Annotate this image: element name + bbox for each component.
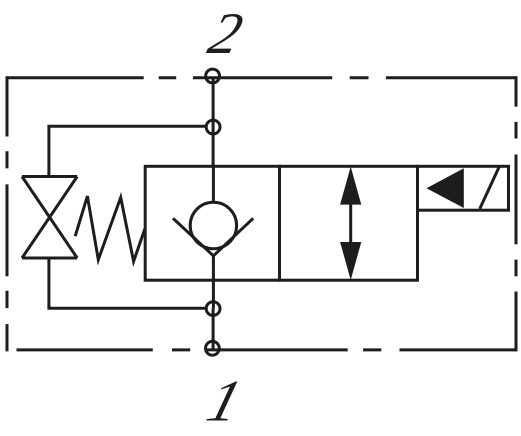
port label 2 xyxy=(202,0,249,66)
solenoid winding triangle xyxy=(427,168,464,208)
wire: shutoff element to bottom junction xyxy=(49,258,208,308)
enclosure frame left edge (dash-dot) xyxy=(6,76,9,351)
enclosure frame top edge (dash-dot) xyxy=(7,76,516,79)
port 2 connection circle xyxy=(206,69,220,83)
spring xyxy=(75,196,145,261)
port 1 connection circle xyxy=(206,341,220,355)
wire: check valve stub to box top xyxy=(212,166,215,202)
wire: pilot branch from junction to shutoff element xyxy=(49,126,208,176)
junction circle (pilot tap on port 2 line) xyxy=(206,120,220,134)
shutoff element (bow-tie) xyxy=(22,177,77,259)
svg-text:1: 1 xyxy=(200,369,248,435)
check valve seat (V) xyxy=(173,218,253,256)
wire: check valve stub to bottom junction xyxy=(212,256,215,309)
valve body: closed position box xyxy=(145,166,279,280)
junction circle (bottom, port 1 line) xyxy=(206,302,220,316)
solenoid coil box xyxy=(418,166,509,210)
svg-text:2: 2 xyxy=(202,0,249,66)
check valve poppet ball xyxy=(190,202,236,248)
flow arrow head (down) xyxy=(340,242,361,280)
solenoid adjustment slash xyxy=(480,167,499,209)
flow arrow head (up) xyxy=(340,167,361,205)
enclosure frame right edge (dash-dot) xyxy=(515,76,518,351)
wire: bottom junction to port 1 xyxy=(212,309,215,350)
flow arrow shaft xyxy=(349,204,352,243)
wire: port 2 to valve body xyxy=(212,79,215,167)
valve body: open position box xyxy=(280,166,418,280)
port label 1 xyxy=(200,369,248,435)
enclosure frame bottom edge (dash-dot) xyxy=(17,348,517,351)
